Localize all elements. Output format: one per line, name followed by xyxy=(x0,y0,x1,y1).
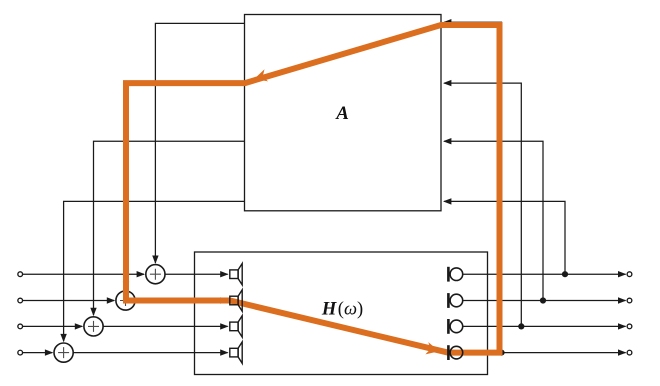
speaker 3 xyxy=(230,316,242,337)
output terminal 1 xyxy=(627,272,632,277)
microphone 1 xyxy=(448,267,462,282)
wire mic 1 to output 1 xyxy=(463,273,625,275)
arrow into sum 2 from top xyxy=(123,282,129,290)
wire input 4 to sum 4 xyxy=(23,352,52,354)
orange arrowhead inside A xyxy=(253,69,269,85)
summation node 1 xyxy=(146,265,165,284)
junction dot row 1 xyxy=(562,271,568,277)
summation node 2 xyxy=(116,291,135,310)
wire feedback 3 junction to A input xyxy=(444,83,521,326)
junction dot row 4 xyxy=(498,350,504,356)
wire sum 2 to speaker 2 xyxy=(135,300,228,302)
arrow into output 3 xyxy=(618,323,626,329)
arrow into output 2 xyxy=(618,297,626,303)
arrow into sum 1 from left xyxy=(137,271,145,277)
junction dot row 3 xyxy=(518,323,524,329)
junction dot row 2 xyxy=(540,297,546,303)
arrow into A right edge row 4 xyxy=(443,198,451,204)
speaker 4 xyxy=(230,342,242,363)
arrow into output 1 xyxy=(618,271,626,277)
orange loop path xyxy=(126,25,500,353)
input terminal 3 xyxy=(18,324,23,329)
output terminal 4 xyxy=(627,350,632,355)
wire sum 1 to speaker 1 xyxy=(165,273,228,275)
summation node 3 xyxy=(84,317,103,336)
arrow into A right edge row 1 (top) xyxy=(443,19,451,25)
microphone 3 xyxy=(448,319,462,334)
wire input 3 to sum 3 xyxy=(23,325,82,327)
arrow into A right edge row 2 xyxy=(443,80,451,86)
wire feedback 2 junction to A input xyxy=(444,141,543,300)
arrow into sum 4 from top xyxy=(60,334,66,342)
arrow into sum 3 from left xyxy=(75,323,83,329)
wire sum 4 to speaker 4 xyxy=(73,352,227,354)
microphone 4 xyxy=(448,345,462,360)
speaker 2 xyxy=(230,290,242,311)
wire input 1 to sum 1 xyxy=(23,273,144,275)
summation node 4 xyxy=(54,343,73,362)
block H(omega) xyxy=(195,252,488,375)
orange arrowhead before mic 4 xyxy=(425,342,440,357)
arrow into sum 1 from top xyxy=(152,256,158,264)
wire mic 2 to output 2 xyxy=(463,300,625,302)
wire sum 3 to speaker 3 xyxy=(103,325,228,327)
block A xyxy=(245,15,442,211)
wire A output 2 to sum 2 xyxy=(126,83,245,289)
arrow into output 4 xyxy=(618,349,626,355)
speaker 1 xyxy=(230,264,242,285)
output terminal 2 xyxy=(627,298,632,303)
output terminal 3 xyxy=(627,324,632,329)
wire A output 1 to sum 1 xyxy=(155,23,244,263)
arrow into speaker 3 xyxy=(220,323,228,329)
input terminal 4 xyxy=(18,350,23,355)
arrow into speaker 4 xyxy=(220,349,228,355)
wire feedback 1 junction to A input xyxy=(444,201,565,274)
svg-text:H (ω): H (ω) xyxy=(321,299,363,319)
arrow into sum 4 from left xyxy=(45,349,53,355)
wire A output 4 to sum 4 xyxy=(64,201,245,341)
arrow into sum 3 from top xyxy=(90,308,96,316)
microphone 2 xyxy=(448,293,462,308)
input terminal 1 xyxy=(18,272,23,277)
arrow into sum 2 from left xyxy=(107,297,115,303)
svg-text:A: A xyxy=(335,103,349,124)
wire mic 4 to output 4 xyxy=(463,352,625,354)
arrow into speaker 1 xyxy=(220,271,228,277)
wire input 2 to sum 2 xyxy=(23,300,114,302)
wire mic 3 to output 3 xyxy=(463,325,625,327)
arrow into speaker 2 xyxy=(220,297,228,303)
wire feedback 4 junction to A input xyxy=(444,22,501,352)
input terminal 2 xyxy=(18,298,23,303)
arrow into A right edge row 3 xyxy=(443,138,451,144)
wire A output 3 to sum 3 xyxy=(94,141,245,315)
